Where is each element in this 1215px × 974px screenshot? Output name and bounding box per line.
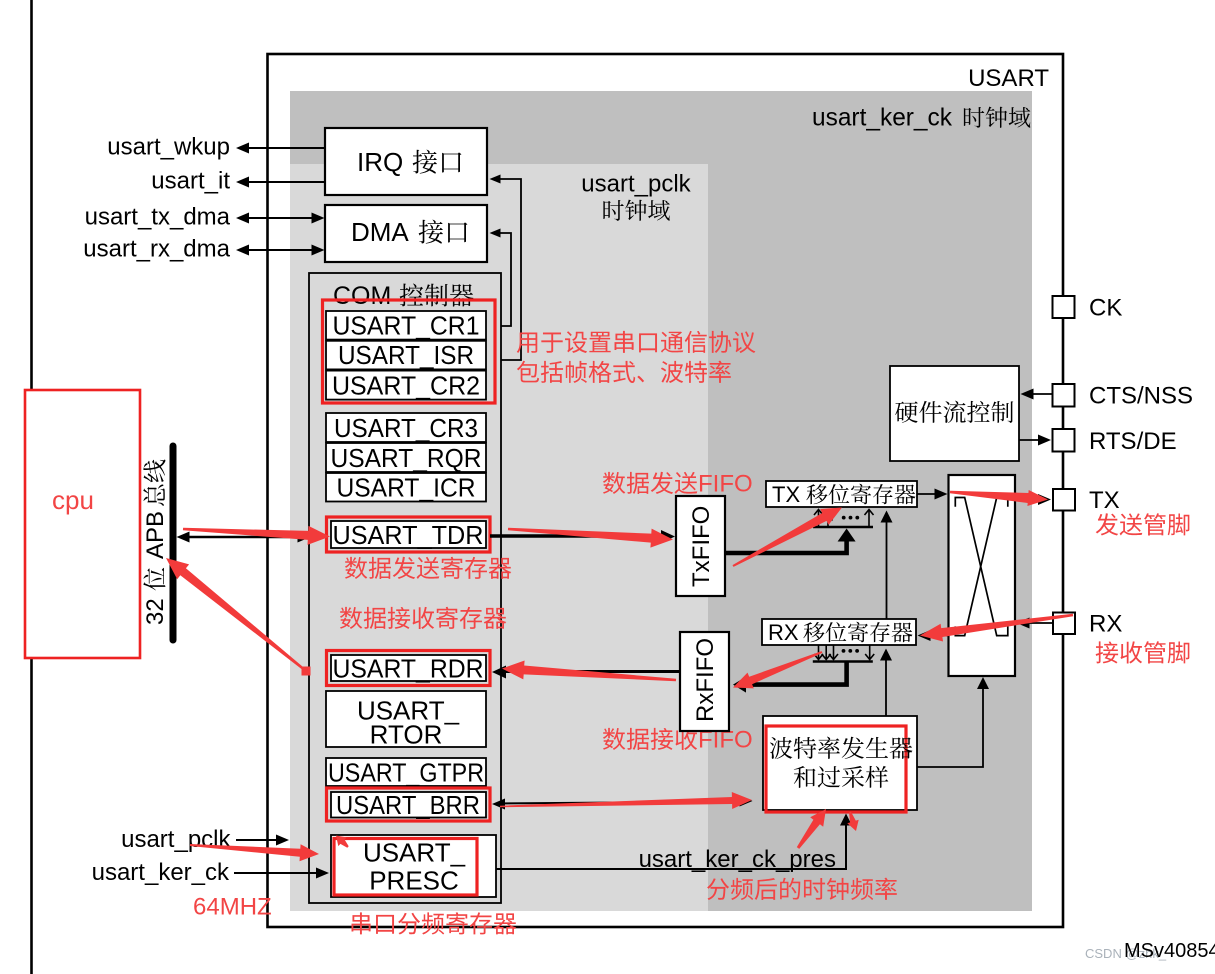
wire usart_ker_ck input [234, 868, 329, 879]
svg-text:USART_CR1: USART_CR1 [333, 310, 480, 340]
register USART_ISR [326, 340, 486, 370]
red arrow clock to baud generator [797, 809, 826, 849]
pin square TX [1053, 489, 1075, 511]
svg-text:DMA: DMA [351, 217, 409, 247]
highlight box baud rate generator [766, 726, 906, 812]
svg-text:USART_GTPR: USART_GTPR [328, 757, 484, 787]
svg-text:USART_ISR: USART_ISR [338, 340, 474, 370]
wire USART_TDR to TxFIFO [490, 530, 675, 543]
wire usart_rx_dma [236, 245, 325, 256]
svg-text:USART_RDR: USART_RDR [333, 653, 484, 683]
svg-text:IRQ: IRQ [357, 147, 403, 177]
highlight box USART_PRESC [334, 839, 477, 896]
red arrow RX shift register to RxFIFO [733, 651, 822, 688]
svg-text:usart_pclk: usart_pclk [121, 826, 231, 853]
register USART_TDR [331, 520, 486, 550]
red arrow small at PRESC corner [336, 836, 349, 848]
block TxFIFO [676, 496, 725, 596]
red arrow cpu bus to USART_TDR [183, 526, 330, 545]
svg-text:CK: CK [1089, 295, 1122, 322]
svg-text:RTS/DE: RTS/DE [1089, 428, 1177, 455]
svg-text:cpu: cpu [52, 485, 94, 515]
wire usart_ker_ck_pres [496, 814, 852, 870]
wire usart_wkup [236, 143, 325, 154]
wire usart_pclk [236, 835, 289, 846]
highlight box USART_TDR [327, 517, 491, 552]
svg-text:MSv40854V: MSv40854V [1124, 940, 1215, 962]
label baud rate generator and oversampling [770, 737, 913, 788]
block COM controller [309, 273, 501, 903]
svg-text:TxFIFO: TxFIFO [688, 506, 715, 587]
svg-text:TX: TX [1089, 487, 1120, 514]
register USART_BRR [331, 790, 486, 820]
wire baud to RX shift register clock [880, 649, 892, 717]
wire RX pin to mux [1017, 618, 1054, 629]
red arrow to TX pin [950, 490, 1048, 506]
wire baud clock to TX shift register [881, 511, 893, 620]
wire RxFIFO to USART_RDR [492, 666, 680, 679]
svg-text:USART: USART [968, 65, 1049, 92]
annotation data receive FIFO [603, 727, 753, 754]
wire COM to DMA [490, 229, 512, 327]
svg-text:usart_rx_dma: usart_rx_dma [83, 236, 230, 263]
block TX shift register [766, 481, 917, 507]
svg-text:USART_CR2: USART_CR2 [332, 370, 480, 400]
annotation protocol setup line1 [517, 333, 538, 354]
label 32-bit APB bus (rotated) [142, 460, 169, 625]
block baud rate generator [763, 716, 917, 810]
pin square CTS/NSS [1053, 384, 1075, 407]
svg-text:USART_TDR: USART_TDR [333, 520, 484, 550]
red arrow small down at baud [847, 812, 858, 831]
outer box USART [268, 54, 1064, 927]
red arrow TxFIFO to TX shift register [733, 508, 843, 567]
pin square CK [1053, 296, 1075, 318]
RX shift register parallel out bracket [813, 645, 874, 662]
svg-text:64MHZ: 64MHZ [193, 894, 272, 921]
svg-text:usart_ker_ck: usart_ker_ck [92, 859, 230, 886]
svg-text:usart_it: usart_it [151, 168, 230, 195]
svg-text:RX: RX [1089, 611, 1122, 638]
region usart_pclk clock domain [290, 164, 708, 911]
register USART_RQR [326, 443, 486, 473]
svg-text:FIFO: FIFO [698, 471, 753, 498]
svg-text:RTOR: RTOR [370, 719, 443, 749]
wire baud to mux [917, 677, 989, 767]
red arrow USART_RDR to cpu bus [166, 558, 311, 676]
svg-text:usart_pclk: usart_pclk [581, 171, 691, 198]
register USART_CR3 [326, 413, 486, 443]
register USART_CR2 [326, 370, 486, 400]
wire usart_tx_dma [236, 213, 325, 224]
highlight box CR1/ISR/CR2 [323, 300, 496, 403]
svg-text:PRESC: PRESC [369, 865, 459, 895]
label usart_ker_ck clock domain [812, 104, 1030, 132]
svg-text:USART_CR3: USART_CR3 [334, 413, 478, 443]
annotation TX pin [1096, 513, 1118, 535]
page left border line [30, 0, 33, 974]
red arrow usart_pclk to USART_PRESC [190, 844, 319, 861]
block DMA interface [325, 205, 487, 262]
block TX/RX pin swap mux [949, 475, 1016, 676]
red arrow USART_BRR to baud generator [500, 792, 752, 809]
red arrow USART_TDR to TxFIFO [508, 528, 673, 548]
annotation prescaler register [352, 912, 371, 934]
svg-text:COM: COM [333, 282, 391, 310]
wire mux to TX pin [1015, 494, 1051, 505]
register USART_PRESC [331, 835, 496, 897]
svg-text:USART_ICR: USART_ICR [337, 473, 476, 503]
block RX shift register [762, 619, 916, 645]
block hardware flow control [890, 366, 1019, 461]
wire TxFIFO to TX shift register [725, 529, 856, 554]
wire mux to RX shift register [918, 630, 949, 641]
annotation protocol setup line2 [517, 361, 539, 383]
svg-text:USART_RQR: USART_RQR [331, 443, 482, 473]
svg-text:32: 32 [142, 598, 169, 625]
TX shift register parallel load bracket [813, 510, 874, 528]
annotation data receive register [340, 607, 362, 629]
highlight box USART_RDR [327, 651, 491, 686]
svg-text:CTS/NSS: CTS/NSS [1089, 383, 1193, 410]
register USART_RDR [331, 653, 486, 683]
svg-text:USART_: USART_ [363, 837, 466, 867]
svg-text:RX: RX [768, 620, 799, 645]
wire flow control to RTS [1019, 435, 1051, 446]
highlight box USART_BRR [327, 788, 491, 821]
svg-text:APB: APB [142, 511, 169, 559]
APB bus bar [170, 446, 177, 640]
region usart_ker_ck clock domain [290, 91, 1032, 911]
register USART_ICR [326, 473, 486, 503]
wire usart_it [236, 177, 325, 188]
annotation RX pin [1096, 641, 1118, 663]
wire RX shift register to RxFIFO [733, 662, 847, 693]
red arrow RX pin to RX shift register [920, 614, 1073, 642]
wire USART_BRR to baud generator [492, 796, 753, 810]
red arrow RxFIFO to USART_RDR [502, 661, 676, 682]
register USART_GTPR [326, 757, 486, 787]
svg-text:usart_ker_ck: usart_ker_ck [812, 104, 952, 132]
wire TX shift register to mux [917, 489, 948, 500]
svg-text:RxFIFO: RxFIFO [692, 638, 719, 722]
svg-text:USART_BRR: USART_BRR [336, 790, 480, 820]
register USART_RTOR [326, 691, 486, 749]
pin square RX [1053, 613, 1075, 635]
label usart_pclk clock domain [581, 171, 691, 221]
block RxFIFO [680, 632, 729, 731]
svg-text:usart_wkup: usart_wkup [107, 134, 230, 161]
svg-text:TX: TX [772, 482, 800, 507]
wire COM to IRQ [490, 175, 522, 361]
annotation data send FIFO [603, 471, 753, 498]
pin square RTS/DE [1053, 429, 1075, 452]
block cpu [25, 390, 140, 658]
block IRQ interface [325, 128, 487, 195]
svg-text:usart_tx_dma: usart_tx_dma [85, 204, 231, 231]
wire APB bus to registers [177, 532, 311, 543]
annotation divided clock frequency [707, 878, 729, 900]
block flow control to CTS wire [1021, 389, 1053, 400]
svg-text:usart_ker_ck_pres: usart_ker_ck_pres [639, 846, 836, 873]
register USART_CR1 [326, 310, 486, 340]
annotation data send register [345, 557, 367, 579]
